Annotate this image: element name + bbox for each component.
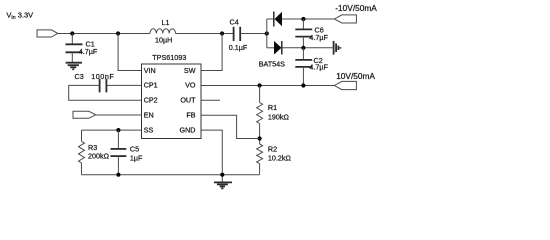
svg-text:EN: EN xyxy=(144,111,154,120)
capacitor C5 xyxy=(111,148,127,150)
wire top diode stub xyxy=(267,18,274,20)
wire bottom diode stub xyxy=(267,47,274,49)
wire C6 bottom xyxy=(302,37,304,48)
svg-text:TPS61093: TPS61093 xyxy=(152,53,186,62)
svg-text:CP2: CP2 xyxy=(144,96,158,105)
node junction VIN branch xyxy=(116,31,120,35)
wire C2 bottom xyxy=(302,67,304,86)
wire OUT stub xyxy=(201,99,220,101)
svg-text:1µF: 1µF xyxy=(130,153,143,162)
wire -10V rail xyxy=(282,18,335,20)
wire CP1 to C3 xyxy=(106,84,141,86)
svg-text:L1: L1 xyxy=(162,18,170,27)
svg-text:C3: C3 xyxy=(75,72,84,81)
wire FB connection xyxy=(201,115,260,138)
wire C5 top xyxy=(117,130,119,149)
node junction C6 top xyxy=(301,17,305,21)
node junction GND/bottom rail xyxy=(220,173,224,177)
svg-text:FB: FB xyxy=(186,111,195,120)
ground (bottom center) xyxy=(214,182,232,188)
node junction diode common xyxy=(265,31,269,35)
svg-text:0.1µF: 0.1µF xyxy=(229,43,248,52)
wire C1 top xyxy=(71,34,73,45)
wire bottom ground rail xyxy=(82,174,260,176)
resistor R2 xyxy=(257,144,263,164)
node junction C5 top xyxy=(116,128,120,132)
wire VO rail xyxy=(201,85,335,87)
ground under C1 xyxy=(66,63,82,70)
svg-text:BAT54S: BAT54S xyxy=(259,59,285,68)
node junction C5 bottom xyxy=(116,173,120,177)
wire R3 bottom xyxy=(81,163,83,175)
svg-text:C5: C5 xyxy=(130,144,139,153)
svg-text:10V/50mA: 10V/50mA xyxy=(336,71,375,81)
svg-text:VO: VO xyxy=(185,81,196,90)
wire SW connection xyxy=(201,34,222,71)
wire input rail xyxy=(58,33,150,35)
svg-text:C4: C4 xyxy=(230,17,239,26)
node junction R1 top xyxy=(258,83,262,87)
svg-text:4.7µF: 4.7µF xyxy=(309,62,328,71)
wire C2 top xyxy=(302,48,304,60)
op-amp U1 TPS61093 body xyxy=(142,64,202,139)
svg-text:-10V/50mA: -10V/50mA xyxy=(335,3,377,13)
diode D1 (top, BAT54S) xyxy=(274,12,282,27)
inductor L1 xyxy=(150,29,176,34)
wire R3 top xyxy=(81,130,83,141)
node junction FB divider xyxy=(258,136,262,140)
svg-text:OUT: OUT xyxy=(180,96,196,105)
diode D2 (bottom, BAT54S) xyxy=(274,41,282,55)
svg-text:GND: GND xyxy=(180,125,196,134)
input connector EN xyxy=(73,111,96,118)
output connector 10V xyxy=(334,81,356,89)
svg-text:SS: SS xyxy=(144,125,154,134)
wire VIN branch xyxy=(118,34,141,71)
ground (sideways, mid right) xyxy=(334,41,341,55)
capacitor C2 xyxy=(295,59,312,61)
capacitor C1 xyxy=(66,43,83,45)
svg-text:CP1: CP1 xyxy=(144,81,158,90)
wire C3 to CP2 xyxy=(69,85,142,100)
wire C4 to diode common xyxy=(240,33,267,35)
node junction C2/VO xyxy=(301,83,305,87)
wire L1 to C4 xyxy=(176,33,234,35)
capacitor C6 xyxy=(295,28,312,30)
node junction C1/input xyxy=(70,31,74,35)
wire GND connection xyxy=(201,130,222,182)
wire R1 bottom xyxy=(259,124,261,145)
svg-text:R1: R1 xyxy=(268,103,277,112)
wire R2 bottom xyxy=(259,164,261,175)
svg-text:200kΩ: 200kΩ xyxy=(88,152,110,161)
wire diode common vertical xyxy=(266,19,268,48)
capacitor C4 xyxy=(233,27,235,41)
input connector Vin xyxy=(37,30,58,37)
svg-text:100nF: 100nF xyxy=(91,72,114,81)
svg-text:VIN: VIN xyxy=(144,66,156,75)
svg-text:10.2kΩ: 10.2kΩ xyxy=(268,153,292,162)
svg-text:10µH: 10µH xyxy=(155,36,172,45)
wire C6 top xyxy=(302,19,304,29)
svg-text:4.7µF: 4.7µF xyxy=(79,47,98,56)
wire EN xyxy=(96,114,142,116)
node junction SW/L1/C4 xyxy=(220,31,224,35)
wire C1 bottom xyxy=(71,52,73,62)
resistor R1 xyxy=(257,103,263,124)
capacitor C3 xyxy=(99,79,101,93)
resistor R3 xyxy=(79,141,85,163)
wire R1 top xyxy=(259,86,261,103)
node junction C2/C6 mid xyxy=(301,46,305,50)
svg-text:190kΩ: 190kΩ xyxy=(268,112,290,121)
output connector -10V xyxy=(334,15,356,23)
wire mid ground line xyxy=(282,47,333,49)
wire C5 bottom xyxy=(117,156,119,175)
wire SS line xyxy=(82,129,142,131)
svg-text:SW: SW xyxy=(184,66,196,75)
svg-text:4.7µF: 4.7µF xyxy=(309,33,328,42)
svg-text:R2: R2 xyxy=(268,145,277,154)
